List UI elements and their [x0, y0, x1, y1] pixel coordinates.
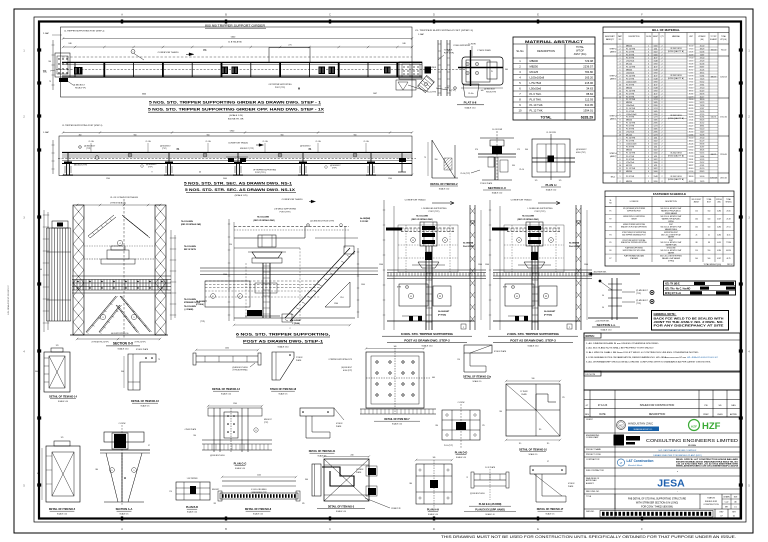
svg-text:(TYP)-3 (TYP): (TYP)-3 (TYP) [135, 342, 146, 344]
svg-text:PL 12 THK: PL 12 THK [626, 99, 636, 101]
svg-text:1500: 1500 [485, 264, 489, 266]
svg-text:CONSTRUCTION: CONSTRUCTION [703, 504, 719, 506]
svg-text:2: 2 [662, 131, 663, 133]
svg-text:52.39: 52.39 [689, 147, 694, 149]
svg-text:TA COLUMN: TA COLUMN [184, 305, 196, 308]
svg-text:800 NB TR. GR.: 800 NB TR. GR. [228, 119, 244, 121]
svg-text:2: 2 [463, 327, 464, 329]
svg-text:77.286: 77.286 [726, 242, 731, 244]
svg-text:1500: 1500 [379, 264, 383, 266]
svg-text:PL 10 THK: PL 10 THK [626, 48, 636, 50]
svg-text:SCALE 1:10: SCALE 1:10 [527, 345, 539, 348]
svg-text:240: 240 [351, 455, 354, 457]
svg-text:9: 9 [134, 317, 135, 319]
svg-text:3: 3 [648, 156, 649, 158]
svg-text:PLA OF REF: PLA OF REF [569, 245, 581, 248]
svg-text:75: 75 [158, 359, 160, 361]
svg-text:1137: 1137 [654, 93, 658, 95]
svg-text:3A GUSSET: 3A GUSSET [438, 310, 450, 313]
svg-text:L50x50x6: L50x50x6 [626, 105, 634, 107]
svg-text:STATUS: STATUS [707, 497, 715, 500]
svg-text:PLAN G-G: PLAN G-G [234, 462, 247, 466]
svg-text:MATERIAL ABSTRACT: MATERIAL ABSTRACT [525, 40, 584, 44]
svg-text:PL 6 THK.: PL 6 THK. [530, 92, 543, 96]
svg-text:PL 8 THK: PL 8 THK [626, 159, 635, 161]
svg-text:REF OF DETS: REF OF DETS [184, 249, 197, 251]
svg-text:45.66: 45.66 [689, 93, 694, 95]
svg-text:240: 240 [402, 43, 405, 45]
svg-text:ISSUED FOR CONSTRUCTION: ISSUED FOR CONSTRUCTION [640, 404, 675, 407]
svg-text:47.20: 47.20 [700, 87, 705, 89]
svg-text:4: 4 [648, 147, 649, 149]
svg-text:STEP-3: STEP-3 [609, 116, 617, 118]
svg-text:(REF OF DETAILS FAR): (REF OF DETAILS FAR) [412, 218, 433, 221]
svg-text:TOTAL WEIGHT (KG): TOTAL WEIGHT (KG) [703, 263, 721, 266]
svg-text:PLATE: PLATE [521, 393, 527, 396]
svg-text:HZL-JESA-021-4020-ST-1001-107: HZL-JESA-021-4020-ST-1001-107 [687, 356, 719, 359]
svg-text:CL OF ROW: CL OF ROW [546, 132, 556, 134]
svg-text:3: 3 [620, 105, 621, 107]
svg-text:(E250 QUALITY 'A'): (E250 QUALITY 'A') [668, 50, 684, 53]
svg-text:SCALE 1:10: SCALE 1:10 [57, 512, 67, 515]
svg-text:F6: F6 [610, 250, 612, 252]
svg-text:CL CA: CL CA [89, 140, 95, 143]
svg-text:1548: 1548 [654, 69, 658, 71]
svg-text:SECTION C-C: SECTION C-C [488, 186, 506, 190]
svg-text:SCALE 1:5: SCALE 1:5 [120, 512, 129, 515]
svg-text:PLAN E-E (AS DRN): PLAN E-E (AS DRN) [479, 503, 502, 506]
svg-text:M16 BOLT (TYP): M16 BOLT (TYP) [74, 165, 87, 167]
svg-text:2: 2 [662, 90, 663, 92]
svg-text:DETAIL OF ITEM NO-15a: DETAIL OF ITEM NO-15a [463, 376, 491, 379]
svg-text:2: 2 [662, 99, 663, 101]
svg-text:DETAIL OF ITEM NO-2: DETAIL OF ITEM NO-2 [430, 182, 458, 186]
svg-text:38.53: 38.53 [689, 90, 694, 92]
svg-text:88: 88 [708, 242, 710, 244]
svg-text:1274: 1274 [654, 117, 658, 119]
svg-text:2: 2 [620, 181, 621, 183]
svg-text:29.81: 29.81 [700, 84, 705, 86]
svg-text:550: 550 [708, 250, 711, 252]
svg-text:DETAIL OF ITEM NO-5: DETAIL OF ITEM NO-5 [49, 508, 76, 511]
svg-text:HZL-TKx- No C. HasNO: HZL-TKx- No C. HasNO [665, 288, 690, 290]
svg-text:POST (TYP.-): POST (TYP.-) [255, 172, 266, 174]
svg-text:1685: 1685 [654, 128, 658, 130]
svg-text:2: 2 [662, 117, 663, 119]
svg-text:CONSULTANT: CONSULTANT [586, 436, 599, 439]
svg-text:74.49: 74.49 [700, 131, 705, 133]
svg-text:29.26: 29.26 [700, 111, 705, 113]
svg-text:25.18: 25.18 [727, 218, 731, 220]
svg-text:2: 2 [620, 140, 621, 142]
svg-text:(TYP): (TYP) [397, 287, 402, 289]
svg-text:TA COLUMN: TA COLUMN [184, 298, 196, 301]
svg-text:1: 1 [648, 176, 649, 178]
svg-text:DETAIL OF ITEM NO-21: DETAIL OF ITEM NO-21 [309, 450, 336, 453]
svg-text:610.74: 610.74 [711, 117, 717, 119]
svg-text:PL 8 THK: PL 8 THK [626, 57, 635, 59]
svg-text:CL TRIPPER SUPPORTING POST (ST: CL TRIPPER SUPPORTING POST (STEP-1) [64, 31, 105, 33]
svg-text:LOCATION: LOCATION [630, 200, 639, 203]
svg-text:1822: 1822 [654, 51, 658, 53]
svg-text:(16) M16 BOLT: (16) M16 BOLT [341, 367, 352, 369]
svg-text:HZF: HZF [691, 425, 697, 429]
svg-text:175: 175 [517, 149, 520, 151]
svg-text:TA COLUMN: TA COLUMN [181, 220, 193, 223]
svg-text:M: M [298, 88, 300, 91]
svg-text:1050: 1050 [225, 348, 229, 350]
svg-text:1959: 1959 [654, 72, 658, 74]
svg-text:SECTION X-X: SECTION X-X [113, 342, 134, 346]
svg-text:(E250 QUALITY 'A'): (E250 QUALITY 'A') [668, 178, 684, 181]
svg-text:HZ: HZ [619, 424, 623, 428]
svg-text:1411: 1411 [654, 165, 658, 167]
svg-text:38.26: 38.26 [700, 150, 705, 152]
svg-text:2: 2 [662, 87, 663, 89]
svg-text:29.52: 29.52 [700, 162, 705, 164]
svg-text:D: D [433, 528, 435, 531]
svg-text:FASTENER SCHEDULE: FASTENER SCHEDULE [653, 192, 686, 196]
svg-text:SUPPORTING POST: SUPPORTING POST [664, 232, 678, 234]
svg-text:CONSULTING ENGINEERS LIMITED: CONSULTING ENGINEERS LIMITED [646, 438, 738, 443]
svg-text:L100x100x8: L100x100x8 [626, 114, 636, 116]
svg-text:56.58: 56.58 [700, 51, 705, 53]
svg-text:0.280: 0.280 [717, 250, 721, 252]
svg-text:PL 10 THK.: PL 10 THK. [530, 103, 544, 107]
svg-text:TR.: TR. [43, 70, 47, 74]
svg-text:PL 12 THK: PL 12 THK [626, 168, 636, 170]
svg-text:CL CA: CL CA [263, 140, 269, 143]
svg-text:115: 115 [547, 443, 550, 445]
svg-text:PREP: PREP [703, 414, 709, 416]
svg-text:MC125: MC125 [626, 165, 632, 167]
svg-text:10: 10 [619, 84, 621, 86]
svg-text:CL ROW: CL ROW [119, 423, 126, 425]
svg-text:SCALE 1:10: SCALE 1:10 [336, 510, 346, 513]
svg-text:BILL OF MATERIAL: BILL OF MATERIAL [652, 28, 680, 32]
svg-text:2: 2 [648, 84, 649, 86]
svg-text:1685: 1685 [654, 102, 658, 104]
svg-text:44.75: 44.75 [727, 258, 731, 260]
svg-text:170: 170 [169, 491, 172, 493]
svg-text:5 NOS. STD. STR. SEC. AS DRAWN: 5 NOS. STD. STR. SEC. AS DRAWN DWG. NS-1… [185, 188, 296, 192]
svg-text:4: 4 [620, 147, 621, 149]
svg-text:8 TRIPPER SUPPORTING PLTF: 8 TRIPPER SUPPORTING PLTF [329, 359, 352, 361]
svg-text:350: 350 [435, 425, 438, 427]
svg-text:TA COLUMN: TA COLUMN [416, 215, 428, 218]
svg-text:UNIT: UNIT [689, 36, 693, 38]
svg-text:DETAIL OF ITEM NO-16: DETAIL OF ITEM NO-16 [131, 400, 159, 403]
svg-text:970: 970 [475, 149, 478, 151]
svg-text:1685: 1685 [654, 120, 658, 122]
svg-text:2: 2 [662, 128, 663, 130]
svg-text:24.01: 24.01 [689, 159, 694, 161]
svg-text:PL 6 THK: PL 6 THK [626, 111, 635, 113]
svg-text:45.40: 45.40 [689, 168, 694, 170]
svg-text:MC125: MC125 [530, 70, 539, 74]
svg-text:JESA: JESA [657, 478, 685, 490]
svg-text:3: 3 [648, 117, 649, 119]
svg-text:3: 3 [648, 87, 649, 89]
svg-text:L75x75x6: L75x75x6 [626, 60, 634, 62]
svg-text:(TYP): (TYP) [148, 167, 153, 169]
svg-text:WWW.LARSENTOUBRO.COM CIN L9999: WWW.LARSENTOUBRO.COM CIN L99999MH1946PLC… [676, 465, 739, 468]
svg-text:(TYP) (BOTH END): (TYP) (BOTH END) [233, 370, 248, 372]
svg-text:(12) M16 BOLT HOLE (TYP): (12) M16 BOLT HOLE (TYP) [310, 221, 334, 223]
svg-text:SCALE 1:10: SCALE 1:10 [187, 510, 197, 513]
svg-text:8: 8 [620, 159, 621, 161]
svg-text:110: 110 [695, 250, 698, 252]
svg-text:THIS DRAWING MUST NOT BE USED: THIS DRAWING MUST NOT BE USED FOR CONSTR… [441, 535, 736, 539]
svg-text:9: 9 [620, 162, 621, 164]
svg-text:2: 2 [662, 165, 663, 167]
svg-text:CL TRIPPER SUPPORTING POST (ST: CL TRIPPER SUPPORTING POST (STEP-1) [62, 125, 103, 127]
svg-text:PL 6 THK: PL 6 THK [626, 78, 635, 80]
svg-text:1: 1 [648, 93, 649, 95]
svg-text:PL 12 THK.: PL 12 THK. [530, 109, 544, 113]
svg-text:STACK OF ITEM NO-18: STACK OF ITEM NO-18 [270, 388, 297, 391]
svg-text:47.81: 47.81 [700, 165, 705, 167]
svg-text:2: 2 [662, 60, 663, 62]
svg-text:2: 2 [662, 63, 663, 65]
svg-text:1822: 1822 [654, 168, 658, 170]
svg-text:6328.29: 6328.29 [581, 115, 593, 119]
svg-text:HOLE (TYP): HOLE (TYP) [486, 91, 496, 93]
svg-text:BOLT: BOLT [707, 202, 711, 204]
svg-text:2: 2 [648, 48, 649, 50]
svg-text:PL 8 THK: PL 8 THK [626, 128, 635, 130]
svg-text:1548: 1548 [654, 87, 658, 89]
svg-text:PLAN B-B: PLAN B-B [186, 506, 198, 509]
svg-text:1: 1 [620, 176, 621, 178]
svg-text:1: 1 [648, 99, 649, 101]
svg-text:PL 10 THK: PL 10 THK [626, 90, 636, 92]
svg-text:2: 2 [620, 60, 621, 62]
svg-text:1: 1 [648, 69, 649, 71]
svg-text:A0: A0 [734, 501, 736, 504]
svg-text:1: 1 [648, 123, 649, 125]
svg-text:1260: 1260 [334, 303, 338, 305]
svg-text:3: 3 [648, 63, 649, 65]
svg-text:47.00: 47.00 [700, 137, 705, 139]
svg-text:L TT: L TT [241, 161, 246, 163]
svg-text:17.00: 17.00 [689, 57, 694, 59]
svg-text:56.55: 56.55 [700, 153, 705, 155]
svg-text:PL6: PL6 [340, 297, 343, 299]
svg-text:1959: 1959 [654, 63, 658, 65]
svg-text:92.87: 92.87 [700, 108, 705, 110]
svg-text:0.280: 0.280 [717, 210, 721, 212]
svg-text:45.13: 45.13 [689, 181, 694, 183]
svg-text:75: 75 [466, 477, 468, 479]
svg-text:2: 2 [662, 181, 663, 183]
svg-text:3A GUSSET: 3A GUSSET [196, 300, 207, 303]
svg-text:1959: 1959 [654, 181, 658, 183]
svg-text:6: 6 [620, 72, 621, 74]
svg-text:POST AS DRAWN DWG. STEP-3: POST AS DRAWN DWG. STEP-3 [510, 339, 556, 343]
svg-text:(REF OF DETAILS FAR): (REF OF DETAILS FAR) [518, 218, 539, 221]
svg-text:2: 2 [662, 159, 663, 161]
svg-text:(TYP) B(TYP)-3 (TYP): (TYP) B(TYP)-3 (TYP) [92, 342, 109, 344]
svg-text:75: 75 [424, 157, 426, 159]
svg-text:6 THICK: 6 THICK [336, 423, 343, 425]
svg-text:9: 9 [620, 123, 621, 125]
svg-text:PLATE: PLATE [296, 359, 302, 362]
svg-text:BACK FCE WELD TO BE SEALED WIT: BACK FCE WELD TO BE SEALED WITH [654, 318, 724, 321]
svg-text:M16 X 45 LG. B/N WITH SPRING: M16 X 45 LG. B/N WITH SPRING [660, 256, 683, 258]
svg-text:2 THICK PLATE: 2 THICK PLATE [477, 49, 491, 52]
svg-text:SCALE 1:5: SCALE 1:5 [141, 404, 150, 407]
svg-text:MB200: MB200 [626, 102, 632, 104]
svg-text:MUMBAI: MUMBAI [688, 444, 696, 447]
svg-text:3600: 3600 [142, 94, 146, 96]
svg-text:4: 4 [648, 120, 649, 122]
svg-text:SD: SD [718, 405, 721, 407]
svg-text:325: 325 [302, 503, 305, 505]
svg-text:17.13: 17.13 [689, 48, 694, 50]
svg-text:900: 900 [281, 134, 284, 136]
svg-text:4: 4 [620, 66, 621, 68]
svg-text:PL: PL [491, 71, 493, 73]
svg-text:2: 2 [662, 176, 663, 178]
svg-text:4: 4 [648, 131, 649, 133]
svg-text:MB250: MB250 [626, 45, 632, 47]
svg-text:3: 3 [620, 51, 621, 53]
svg-text:SUB CONTRACTOR: SUB CONTRACTOR [586, 469, 604, 472]
svg-text:1137: 1137 [654, 57, 658, 59]
svg-text:2236.57: 2236.57 [583, 65, 593, 69]
svg-text:1548: 1548 [654, 60, 658, 62]
svg-text:PL 8 THK: PL 8 THK [626, 176, 635, 178]
svg-text:38.39: 38.39 [689, 66, 694, 68]
svg-text:WT/100: WT/100 [716, 199, 722, 201]
svg-text:MB250: MB250 [626, 150, 632, 152]
svg-text:MB250: MB250 [626, 181, 632, 183]
svg-text:HOLE (TYP): HOLE (TYP) [576, 152, 586, 154]
svg-text:PL 8 THK: PL 8 THK [626, 84, 635, 86]
svg-text:2: 2 [662, 137, 663, 139]
svg-text:(ASSY): (ASSY) [610, 78, 616, 81]
svg-text:165.20: 165.20 [585, 76, 594, 80]
svg-text:1959: 1959 [654, 81, 658, 83]
svg-text:SCALE 1:10: SCALE 1:10 [439, 188, 449, 191]
svg-text:TOT WT: TOT WT [710, 36, 716, 38]
svg-text:1a ROW: 1a ROW [468, 44, 475, 46]
svg-text:TA COLUMN: TA COLUMN [257, 216, 269, 219]
svg-text:MC125: MC125 [626, 63, 632, 65]
svg-text:(TYP) B 930 A 930: (TYP) B 930 A 930 [110, 202, 126, 205]
svg-text:CL OF ROW: CL OF ROW [492, 129, 502, 131]
svg-text:281.52: 281.52 [727, 264, 733, 266]
svg-text:340: 340 [394, 346, 397, 348]
svg-text:2: 2 [648, 102, 649, 104]
svg-text:3A GUSSET: 3A GUSSET [291, 319, 302, 322]
svg-text:2: 2 [662, 105, 663, 107]
svg-text:40: 40 [199, 171, 201, 173]
svg-text:HZL-TK (M) E.: HZL-TK (M) E. [665, 284, 681, 286]
svg-text:1: 1 [648, 57, 649, 59]
svg-text:SCALE 1:5: SCALE 1:5 [546, 512, 555, 515]
svg-text:(TYP): (TYP) [162, 148, 167, 150]
svg-text:1: 1 [648, 137, 649, 139]
svg-text:SCALE 1:10: SCALE 1:10 [235, 467, 245, 470]
svg-text:PL 10 THK: PL 10 THK [626, 123, 636, 125]
svg-text:1685: 1685 [654, 111, 658, 113]
svg-text:ISSUED FOR: ISSUED FOR [705, 501, 718, 503]
svg-text:SCALE 1:10: SCALE 1:10 [546, 189, 556, 192]
svg-text:6: 6 [620, 114, 621, 116]
svg-text:3: 3 [620, 63, 621, 65]
svg-text:2670.32: 2670.32 [720, 178, 727, 180]
svg-text:OF TRIPPER SUPPORTING: OF TRIPPER SUPPORTING [268, 84, 292, 86]
svg-text:350: 350 [512, 165, 515, 167]
svg-text:DETAIL OF ITEM NO-3: DETAIL OF ITEM NO-3 [328, 506, 355, 509]
svg-text:24.26: 24.26 [689, 51, 694, 53]
svg-text:2: 2 [662, 48, 663, 50]
svg-text:38.00: 38.00 [700, 99, 705, 101]
svg-text:59.52: 59.52 [689, 150, 694, 152]
svg-text:2: 2 [662, 120, 663, 122]
svg-text:REV: REV [585, 414, 590, 416]
svg-text:360: 360 [35, 371, 38, 373]
svg-text:2: 2 [662, 111, 663, 113]
svg-text:AGENCY: AGENCY [586, 482, 595, 485]
svg-text:65.58: 65.58 [700, 63, 705, 65]
svg-text:PL 8 THK: PL 8 THK [626, 117, 635, 119]
svg-text:PL 8 THK.: PL 8 THK. [530, 98, 543, 102]
svg-text:OF TRIPPER SUPPORTING: OF TRIPPER SUPPORTING [253, 170, 277, 172]
svg-text:FOR ANY DISCREPANCY AT SITE: FOR ANY DISCREPANCY AT SITE [654, 325, 725, 328]
svg-text:380.37: 380.37 [711, 77, 717, 79]
svg-text:110: 110 [695, 210, 698, 212]
svg-text:215.96: 215.96 [585, 81, 594, 85]
svg-text:CONVEYOR TH4020: CONVEYOR TH4020 [282, 199, 304, 201]
svg-text:340: 340 [433, 457, 436, 459]
svg-text:20.87: 20.87 [700, 147, 705, 149]
svg-text:500: 500 [708, 218, 711, 220]
svg-text:1000: 1000 [654, 153, 658, 155]
svg-text:88: 88 [696, 242, 698, 244]
svg-text:0.455: 0.455 [717, 242, 721, 244]
svg-text:1500: 1500 [361, 284, 365, 286]
svg-text:F1: F1 [610, 210, 612, 212]
svg-text:5000: 5000 [223, 178, 227, 180]
svg-text:56.84: 56.84 [700, 75, 705, 77]
svg-text:(TYP): (TYP) [332, 168, 337, 170]
svg-text:1548: 1548 [654, 78, 658, 80]
svg-text:F4: F4 [610, 234, 612, 236]
svg-text:1200: 1200 [106, 178, 110, 180]
svg-text:DETAIL OF ITEM NO-17: DETAIL OF ITEM NO-17 [537, 508, 564, 511]
svg-text:1500: 1500 [584, 264, 588, 266]
svg-text:900: 900 [134, 134, 137, 136]
svg-text:2 NOS. STD. TRIPPER SUPPORTING: 2 NOS. STD. TRIPPER SUPPORTING [507, 332, 560, 336]
svg-text:PL 6 THK: PL 6 THK [626, 126, 635, 128]
svg-text:170: 170 [61, 437, 64, 439]
svg-text:(TYP): (TYP) [86, 148, 91, 150]
svg-text:POST AS DRAWN DWG. STEP-2: POST AS DRAWN DWG. STEP-2 [404, 339, 450, 343]
svg-text:HINDUSTAN ZINC: HINDUSTAN ZINC [628, 422, 654, 426]
svg-text:L50x50x6: L50x50x6 [626, 72, 634, 74]
svg-text:NOTES:: NOTES: [586, 335, 595, 338]
svg-text:8 THICK PLATE: 8 THICK PLATE [136, 348, 149, 351]
svg-text:2: 2 [662, 51, 663, 53]
svg-text:12: 12 [619, 90, 621, 92]
svg-text:NO./M: NO./M [646, 36, 651, 38]
svg-text:170: 170 [535, 180, 538, 182]
svg-text:175: 175 [562, 397, 565, 399]
svg-text:2: 2 [662, 153, 663, 155]
